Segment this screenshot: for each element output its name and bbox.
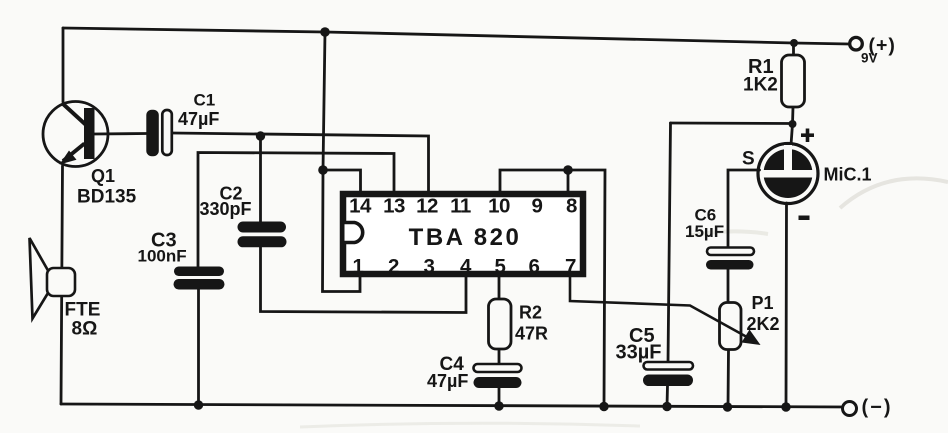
svg-text:C1: C1 [194, 91, 216, 110]
svg-text:P1: P1 [752, 293, 774, 313]
svg-text:330pF: 330pF [200, 199, 252, 219]
svg-text:FTE: FTE [65, 300, 101, 321]
svg-text:47µF: 47µF [178, 109, 219, 129]
svg-text:(−): (−) [862, 397, 893, 419]
svg-text:15µF: 15µF [685, 222, 724, 241]
svg-text:1K2: 1K2 [743, 75, 778, 96]
svg-text:MiC.1: MiC.1 [824, 165, 872, 185]
svg-text:47µF: 47µF [427, 371, 468, 391]
svg-text:9V: 9V [861, 51, 878, 66]
svg-text:9: 9 [532, 195, 543, 218]
svg-text:TBA 820: TBA 820 [409, 224, 522, 251]
svg-text:5: 5 [495, 255, 506, 278]
svg-text:11: 11 [450, 195, 471, 218]
svg-text:6: 6 [529, 255, 540, 278]
svg-text:13: 13 [383, 195, 405, 218]
svg-text:BD135: BD135 [77, 187, 137, 208]
svg-text:47R: 47R [515, 324, 548, 344]
svg-text:100nF: 100nF [138, 247, 187, 266]
svg-text:33µF: 33µF [616, 342, 662, 364]
svg-text:8: 8 [566, 195, 577, 218]
svg-text:12: 12 [416, 195, 438, 218]
svg-text:S: S [742, 149, 755, 170]
svg-text:10: 10 [488, 195, 510, 218]
svg-text:8Ω: 8Ω [72, 319, 98, 340]
svg-text:R2: R2 [519, 303, 542, 323]
svg-text:2K2: 2K2 [747, 314, 780, 334]
svg-text:4: 4 [460, 255, 472, 278]
svg-text:14: 14 [349, 195, 372, 218]
svg-text:7: 7 [565, 255, 576, 278]
svg-text:1: 1 [353, 255, 364, 278]
svg-text:3: 3 [424, 255, 435, 278]
svg-text:Q1: Q1 [91, 166, 115, 186]
svg-text:2: 2 [388, 255, 399, 278]
